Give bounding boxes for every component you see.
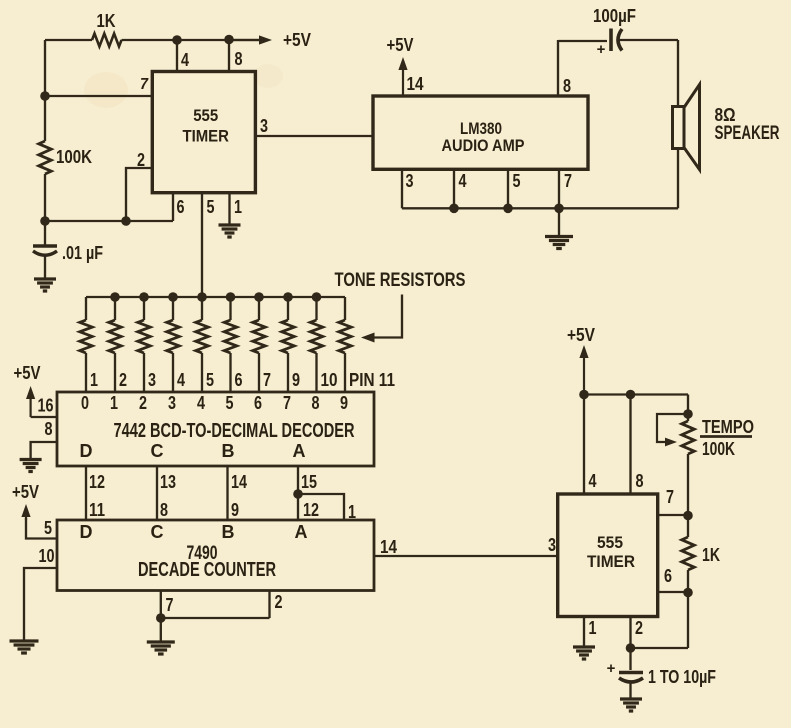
wire to 100uF bbox=[558, 40, 607, 42]
node junction pin6 bbox=[683, 588, 693, 598]
resistor tone R7 bbox=[253, 320, 266, 353]
svg-text:8: 8 bbox=[160, 500, 168, 520]
wire tone resistor 6 bottom bbox=[229, 353, 231, 392]
node junction pin2/pin6 bbox=[121, 216, 131, 226]
resistor tone R2 bbox=[109, 320, 122, 353]
wire to ground bbox=[160, 618, 162, 642]
wire ground bus LM380 bbox=[402, 207, 678, 209]
wire pin8 stub LM380 bbox=[557, 40, 559, 96]
wire to pin2 bbox=[631, 647, 689, 649]
svg-text:2: 2 bbox=[137, 150, 145, 170]
resistor tone R6 bbox=[224, 320, 237, 353]
wire pin16 bbox=[31, 416, 57, 418]
svg-text:10: 10 bbox=[39, 546, 55, 566]
svg-text:14: 14 bbox=[231, 472, 247, 492]
svg-text:3: 3 bbox=[406, 171, 414, 191]
wire pin5 stub LM380 bbox=[507, 169, 509, 208]
wire pin2 bbox=[126, 168, 152, 221]
wire tone resistor 10 top bbox=[344, 297, 346, 320]
svg-text:+: + bbox=[607, 660, 616, 677]
wire pin5 bbox=[26, 518, 57, 539]
resistor tone R1 bbox=[80, 320, 93, 353]
wire pin2 to cap bbox=[629, 648, 631, 670]
svg-text:10: 10 bbox=[321, 370, 338, 390]
resistor tone R8 bbox=[282, 320, 295, 353]
svg-text:D: D bbox=[80, 441, 93, 461]
node junction pin5 bbox=[503, 204, 513, 214]
wire cap to ground bbox=[629, 681, 631, 699]
svg-text:+5V: +5V bbox=[387, 35, 414, 55]
wire pin6 run bbox=[45, 220, 173, 222]
wire pin6 stub bbox=[172, 193, 174, 221]
TEMPO underline bbox=[700, 435, 752, 438]
+5V arrow pin16 bbox=[26, 386, 35, 417]
resistor tone R5 bbox=[196, 320, 209, 353]
wire pin2 stub bbox=[268, 591, 270, 619]
wire 1K to pin2 node bbox=[687, 570, 689, 648]
svg-text:SPEAKER: SPEAKER bbox=[715, 123, 780, 144]
svg-text:8: 8 bbox=[45, 419, 53, 439]
svg-text:1K: 1K bbox=[702, 545, 720, 565]
svg-text:6: 6 bbox=[235, 370, 243, 390]
555 timer U1 bbox=[152, 72, 255, 193]
svg-text:A: A bbox=[293, 441, 306, 461]
node junction pin4/V+ bbox=[172, 35, 182, 45]
node tone bus junction 9 bbox=[312, 292, 322, 302]
ground .01uF bbox=[34, 279, 56, 291]
svg-text:TIMER: TIMER bbox=[182, 127, 229, 146]
svg-text:2: 2 bbox=[139, 393, 147, 413]
svg-text:2: 2 bbox=[275, 592, 283, 612]
svg-text:100K: 100K bbox=[56, 147, 92, 167]
wire left rail lower bbox=[44, 174, 46, 246]
svg-text:3: 3 bbox=[548, 535, 556, 555]
LM380 audio amp U2 bbox=[373, 96, 588, 169]
svg-text:14: 14 bbox=[407, 74, 424, 94]
svg-text:8Ω: 8Ω bbox=[715, 105, 736, 125]
arrow to tone resistors bbox=[361, 295, 402, 343]
svg-text:+: + bbox=[597, 41, 606, 58]
svg-text:1: 1 bbox=[90, 370, 98, 390]
wire tone resistor 2 bottom bbox=[114, 353, 116, 392]
node junction pin4 bbox=[579, 390, 589, 400]
wire pin8 to ground bbox=[31, 442, 57, 459]
wire tone resistor 7 bottom bbox=[258, 353, 260, 392]
svg-text:13: 13 bbox=[160, 472, 176, 492]
wire pin7 stub bbox=[160, 591, 162, 619]
node tone bus junction 5 bbox=[197, 292, 207, 302]
wire speaker top bbox=[677, 40, 679, 107]
svg-text:7: 7 bbox=[564, 171, 572, 191]
svg-text:6: 6 bbox=[664, 566, 672, 586]
wire C 13-to-8 bbox=[156, 466, 158, 520]
svg-text:2: 2 bbox=[635, 618, 643, 638]
wire pin10 to ground bbox=[24, 568, 57, 641]
svg-text:3: 3 bbox=[148, 370, 156, 390]
node tone bus junction 7 bbox=[254, 292, 264, 302]
svg-text:.01 µF: .01 µF bbox=[62, 243, 103, 263]
ground pin1 U5 bbox=[573, 647, 595, 659]
wire cap to ground bbox=[44, 254, 46, 279]
node junction rail/pin6 bbox=[40, 216, 50, 226]
svg-text:7: 7 bbox=[263, 370, 271, 390]
wire pin3 stub LM380 bbox=[401, 169, 403, 208]
wire pin7-pin2 bbox=[161, 617, 270, 619]
node tone bus junction 3 bbox=[139, 292, 149, 302]
potentiometer TEMPO 100K bbox=[682, 421, 695, 454]
wire tone resistor 10 bottom bbox=[344, 353, 346, 392]
wire A to pin1 bbox=[298, 494, 344, 520]
svg-text:1K: 1K bbox=[97, 11, 116, 31]
svg-text:9: 9 bbox=[231, 500, 239, 520]
wire tone resistor 5 top bbox=[201, 297, 203, 320]
wire pin7 bbox=[45, 95, 152, 97]
7442 decoder U3 bbox=[57, 392, 374, 466]
7490 counter U4 bbox=[57, 520, 374, 591]
wire bbox=[45, 39, 92, 41]
wire pin3 U1 to LM380 bbox=[255, 135, 373, 137]
wire to ground bbox=[558, 208, 560, 236]
speaker SP1 bbox=[673, 85, 700, 170]
svg-text:7: 7 bbox=[666, 487, 674, 507]
wire tone resistor 2 top bbox=[114, 297, 116, 320]
svg-text:11: 11 bbox=[89, 500, 105, 520]
svg-text:7442 BCD-TO-DECIMAL DECODER: 7442 BCD-TO-DECIMAL DECODER bbox=[114, 420, 355, 442]
svg-text:2: 2 bbox=[119, 370, 127, 390]
555 timer U5 bbox=[558, 494, 658, 617]
node junction pin8 bbox=[626, 390, 636, 400]
svg-text:8: 8 bbox=[563, 76, 571, 96]
capacitor .01uF bbox=[33, 246, 57, 255]
wire tone resistor 6 top bbox=[229, 297, 231, 320]
node junction pin4 bbox=[449, 204, 459, 214]
node junction A bbox=[293, 489, 303, 499]
svg-text:1 TO 10µF: 1 TO 10µF bbox=[648, 667, 716, 687]
resistor tone R10 bbox=[339, 320, 352, 353]
svg-text:7: 7 bbox=[166, 595, 174, 615]
svg-text:1: 1 bbox=[110, 393, 118, 413]
wire pin1 stub bbox=[228, 193, 230, 224]
wire tone bus bbox=[86, 296, 345, 298]
svg-text:+5V: +5V bbox=[283, 30, 311, 50]
svg-text:TONE RESISTORS: TONE RESISTORS bbox=[335, 269, 466, 291]
svg-text:100µF: 100µF bbox=[593, 6, 636, 26]
+5V arrow pin14 bbox=[398, 57, 407, 96]
svg-text:6: 6 bbox=[177, 197, 185, 217]
node tone bus junction 6 bbox=[226, 292, 236, 302]
svg-text:5: 5 bbox=[226, 393, 234, 413]
svg-text:3: 3 bbox=[260, 116, 268, 136]
svg-text:3: 3 bbox=[168, 393, 176, 413]
svg-text:4: 4 bbox=[589, 471, 597, 491]
svg-text:+5V: +5V bbox=[567, 325, 595, 345]
svg-text:TEMPO: TEMPO bbox=[702, 417, 754, 437]
resistor tone R3 bbox=[138, 320, 151, 353]
wire D 12-to-11 bbox=[85, 466, 87, 520]
+5V arrow bbox=[229, 35, 272, 44]
wire 100uF to speaker bbox=[620, 39, 679, 41]
svg-text:D: D bbox=[80, 522, 93, 542]
node junction pin8/V+ bbox=[224, 35, 234, 45]
node junction pin7/rail bbox=[40, 91, 50, 101]
wire tone resistor 9 bottom bbox=[315, 353, 317, 392]
wire pin8 stub bbox=[629, 395, 631, 495]
svg-text:555: 555 bbox=[597, 533, 623, 552]
ground cap U5 bbox=[620, 699, 642, 711]
capacitor 100uF bbox=[611, 29, 622, 52]
svg-text:14: 14 bbox=[380, 537, 397, 557]
svg-text:8: 8 bbox=[636, 471, 644, 491]
+5V arrow pin5 bbox=[21, 504, 30, 520]
svg-text:DECADE COUNTER: DECADE COUNTER bbox=[138, 559, 276, 581]
wire pin5 to tone bus bbox=[201, 193, 203, 297]
node junction pin7 bbox=[554, 204, 564, 214]
svg-text:8: 8 bbox=[312, 393, 320, 413]
svg-text:C: C bbox=[151, 522, 164, 542]
wire pot to pin7 bbox=[687, 454, 689, 537]
svg-text:12: 12 bbox=[89, 472, 105, 492]
wire A 15-to-12 bbox=[297, 466, 299, 520]
wire tone resistor 1 top bbox=[85, 297, 87, 320]
svg-text:C: C bbox=[151, 441, 164, 461]
wire pin7 stub LM380 bbox=[558, 169, 560, 208]
svg-text:5: 5 bbox=[44, 518, 52, 538]
svg-text:5: 5 bbox=[207, 197, 215, 217]
node tone bus junction 8 bbox=[283, 292, 293, 302]
+5V arrow U5 bbox=[579, 345, 588, 395]
node tone bus junction 4 bbox=[168, 292, 178, 302]
svg-text:6: 6 bbox=[254, 393, 262, 413]
ground pin8 U3 bbox=[20, 460, 42, 472]
svg-text:PIN 11: PIN 11 bbox=[349, 370, 395, 390]
wire pin8 stub bbox=[228, 40, 230, 72]
resistor 1K bbox=[682, 537, 695, 570]
wire tone resistor 5 bottom bbox=[201, 353, 203, 392]
resistor 100K bbox=[39, 141, 52, 174]
wire pin4 stub bbox=[583, 395, 585, 495]
svg-text:9: 9 bbox=[292, 370, 300, 390]
wire tone resistor 7 top bbox=[258, 297, 260, 320]
wire tone resistor 3 bottom bbox=[143, 353, 145, 392]
svg-text:100K: 100K bbox=[702, 439, 735, 459]
wire pin2 stub bbox=[629, 617, 631, 649]
node junction pin7 bbox=[683, 511, 693, 521]
wire B 14-to-9 bbox=[226, 466, 228, 520]
svg-text:+5V: +5V bbox=[12, 482, 39, 502]
wire tone resistor 8 bottom bbox=[287, 353, 289, 392]
svg-text:4: 4 bbox=[197, 393, 205, 413]
svg-text:A: A bbox=[295, 522, 308, 542]
wire tone resistor 3 top bbox=[143, 297, 145, 320]
svg-text:B: B bbox=[222, 522, 235, 542]
svg-text:1: 1 bbox=[234, 197, 242, 217]
svg-text:7: 7 bbox=[283, 393, 291, 413]
svg-text:7: 7 bbox=[140, 76, 149, 93]
svg-text:AUDIO AMP: AUDIO AMP bbox=[442, 136, 525, 155]
svg-text:TIMER: TIMER bbox=[587, 552, 635, 571]
potentiometer wiper arrow bbox=[657, 414, 688, 446]
wire to tempo pot bbox=[687, 395, 689, 422]
wire V+ rail U5 bbox=[584, 393, 688, 395]
svg-text:4: 4 bbox=[177, 370, 185, 390]
wire pin7 bbox=[658, 514, 688, 516]
wire bbox=[122, 39, 263, 41]
ground pin10 U4 bbox=[10, 641, 39, 653]
node tone bus junction 2 bbox=[110, 292, 120, 302]
wire tone resistor 1 bottom bbox=[85, 353, 87, 392]
svg-text:555: 555 bbox=[193, 106, 218, 125]
wire pin4 stub LM380 bbox=[453, 169, 455, 208]
svg-text:5: 5 bbox=[206, 370, 214, 390]
svg-text:+5V: +5V bbox=[14, 363, 41, 383]
wire tone resistor 4 bottom bbox=[172, 353, 174, 392]
wire pin1 stub bbox=[583, 617, 585, 647]
svg-text:16: 16 bbox=[38, 396, 54, 416]
ground LM380 bbox=[545, 237, 573, 249]
node junction pin2 bbox=[626, 643, 636, 653]
svg-text:0: 0 bbox=[81, 393, 89, 413]
svg-text:1: 1 bbox=[589, 618, 597, 638]
wire tone resistor 4 top bbox=[172, 297, 174, 320]
wire tone resistor 8 top bbox=[287, 297, 289, 320]
svg-text:15: 15 bbox=[301, 472, 317, 492]
resistor tone R9 bbox=[310, 320, 323, 353]
node junction wiper bbox=[683, 409, 693, 419]
svg-text:4: 4 bbox=[459, 171, 467, 191]
wire pin6 bbox=[658, 591, 688, 593]
wire tone resistor 9 top bbox=[315, 297, 317, 320]
svg-text:5: 5 bbox=[513, 171, 521, 191]
wire pin14 to U5 pin3 bbox=[374, 555, 558, 557]
capacitor 1 TO 10uF bbox=[619, 673, 643, 683]
wire speaker return bbox=[677, 149, 679, 209]
wire pin4 stub bbox=[176, 40, 178, 71]
svg-text:4: 4 bbox=[181, 50, 189, 70]
svg-text:12: 12 bbox=[303, 500, 319, 520]
resistor tone R4 bbox=[167, 320, 180, 353]
resistor 1K (top) bbox=[92, 34, 122, 47]
ground pin1 U1 bbox=[219, 225, 241, 237]
wire left rail bbox=[44, 40, 46, 141]
ground pin7 U4 bbox=[147, 642, 175, 654]
svg-text:9: 9 bbox=[340, 393, 348, 413]
svg-text:B: B bbox=[222, 441, 235, 461]
svg-text:8: 8 bbox=[235, 49, 243, 69]
node junction pin7 bbox=[156, 613, 166, 623]
